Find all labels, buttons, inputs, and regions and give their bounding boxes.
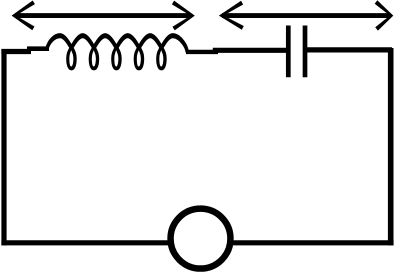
wire inductor right stub <box>186 50 218 54</box>
wire to capacitor left plate <box>213 48 288 53</box>
arrow A1 left head <box>12 0 35 30</box>
inductor loop interiors (white) <box>69 50 163 66</box>
wire bottom <box>1 240 393 245</box>
arrow A2 left head <box>219 1 244 30</box>
source V1 (circle) <box>171 209 231 269</box>
wire inductor left stub <box>27 46 49 51</box>
arrow A2 (span over capacitor) shaft <box>222 13 390 18</box>
wire left side <box>1 49 6 245</box>
arrow A2 right head <box>375 0 394 30</box>
capacitor C1 right plate <box>303 26 308 78</box>
inductor L1 <box>47 36 187 68</box>
wire capacitor right plate to corner <box>305 47 392 52</box>
arrow A1 right head <box>172 1 195 31</box>
wire top-left corner lead <box>1 49 31 54</box>
arrow A1 (span over inductor) shaft <box>15 13 191 18</box>
wire right side <box>388 48 394 245</box>
capacitor C1 left plate <box>286 26 291 78</box>
